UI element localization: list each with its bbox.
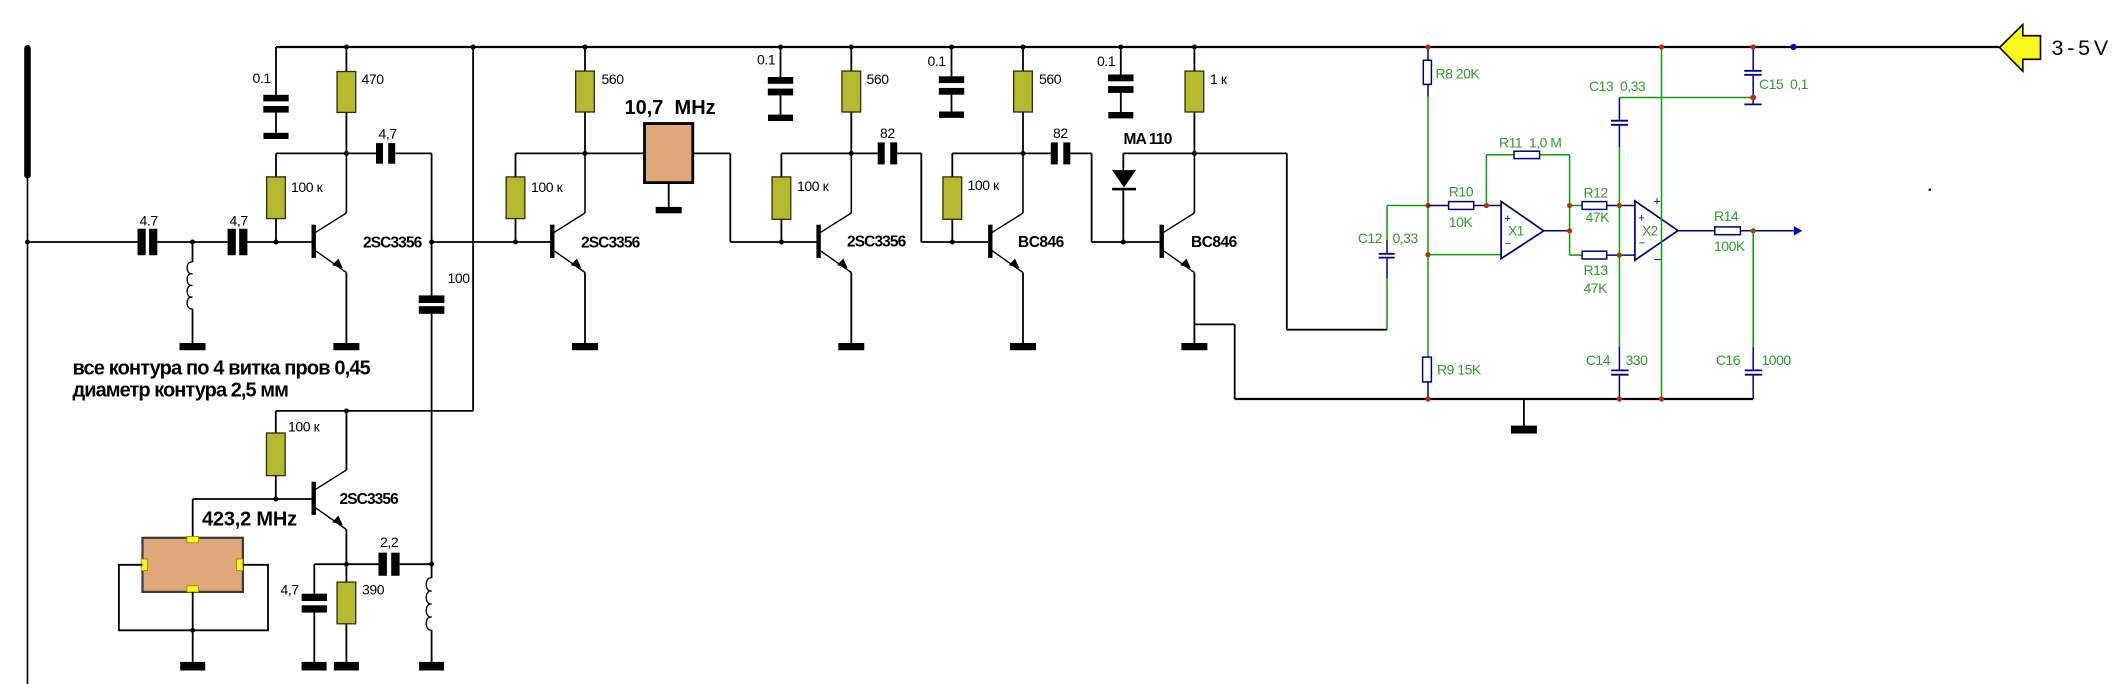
wire R12 right lead [1607,205,1635,207]
capacitor C13 0,33 [1611,120,1628,122]
ground analog [1511,426,1537,434]
wire C1 to L1 node [157,241,192,243]
svg-text:R12: R12 [1584,185,1609,201]
ground under R10b [334,662,359,671]
resistor R8b 100k [943,177,962,219]
wire Q5 collector output right [1194,152,1286,154]
wire Q5 emitter to ground [1193,273,1195,344]
svg-text:R14: R14 [1714,208,1739,224]
wire Q4 collector to C9 [1023,152,1051,154]
resistor R2 100k [267,177,286,219]
svg-text:100K: 100K [1714,238,1746,254]
diode VD1 MA 110 [1112,170,1136,187]
capacitor C3 0.1 top lead [275,47,277,95]
wire crystal left pin loop [119,565,268,631]
wire C7 output [897,152,921,154]
capacitor C6 0.1 [768,77,793,84]
wire R1k top lead [1193,47,1195,71]
wire top supply rail +V [276,46,1999,48]
node X2 supply rail bottom [1659,396,1664,401]
node X2 minus input [1617,253,1622,258]
svg-text:4.7: 4.7 [140,212,159,228]
node mixer base junction [429,240,434,245]
svg-text:0.1: 0.1 [928,53,947,69]
resistor R10 10K left lead [1428,205,1449,207]
wire C13 top horizontal [1619,97,1753,99]
svg-text:R13: R13 [1584,262,1609,278]
wire C11 bottom lead [313,613,315,662]
ground under Q5 [1181,343,1207,350]
wire mixer column down [431,153,433,242]
svg-text:0,33: 0,33 [1393,230,1419,246]
wire emitter to C13b [346,563,378,565]
wire C13 column [1618,147,1620,206]
capacitor C10 0.1 [1108,75,1133,82]
svg-text:330: 330 [1626,352,1649,368]
wire R10b bottom lead [345,624,347,662]
svg-text:R8 20K: R8 20K [1436,66,1481,82]
wire Q6 collector vertical [345,411,347,470]
node rail junction R1k [1192,45,1197,50]
svg-text:C15 0,1: C15 0,1 [1759,76,1809,92]
capacitor C12 0,33 green top [1386,206,1388,241]
wire R6 bottom lead [780,219,782,242]
node Q1 collector [344,151,349,156]
svg-text:−: − [1639,238,1645,250]
antenna W1 [24,45,31,179]
wire X1 minus input [1428,254,1501,256]
node Q1 base bias [274,240,279,245]
wire R11 feedback top right [1540,154,1570,156]
ground under C6 [768,115,793,121]
capacitor C3 0.1 [263,95,288,102]
capacitor C11 4,7 top lead [313,564,315,594]
capacitor C4 4,7 coupling [346,152,376,154]
wire C12 bottom green [1386,279,1388,330]
ground under Q2 [572,343,598,350]
wire R6 top lead [780,153,782,177]
capacitor C7 82 [878,142,885,164]
resistor R9b 100k [266,433,285,476]
wire C3 to ground bar [275,112,277,133]
node X2 supply rail top [1659,44,1664,49]
wire R8 to input node green [1427,97,1429,206]
node Q5 collector [1192,151,1197,156]
wire C10 to ground bar [1120,93,1122,112]
wire R2 top lead [275,153,277,177]
svg-text:560: 560 [1039,71,1062,87]
wire C2 to Q1 base [247,241,311,243]
svg-text:0.1: 0.1 [757,52,776,68]
transistor Q1 2SC3356 [312,225,316,258]
node rail junction C6 [778,45,783,50]
wire to R13 [1570,254,1583,256]
ground under L1 [180,343,206,350]
transistor Q3 2SC3356 [816,225,820,258]
node R14 output [1751,228,1756,233]
crystal pin bottom [187,586,199,592]
wire inverting node to R9 [1427,255,1429,358]
wire oscillator supply drop [472,47,474,411]
wire R1 bottom to collector node [345,112,347,153]
capacitor C8 0.1 top lead [951,47,953,76]
output arrow [1794,226,1803,236]
svg-text:+: + [1653,193,1661,208]
resistor R12 47K left lead [1570,205,1583,207]
svg-text:−: − [1505,238,1511,250]
node Q2 collector [583,151,588,156]
wire output drop [1286,153,1288,329]
node rail junction R7 [1021,45,1026,50]
stray dot [1929,189,1931,191]
capacitor C12 0,33 [1386,240,1388,253]
crystal pin right [237,559,243,571]
power arrow 3-5V [2000,25,2041,72]
svg-text:все контура по 4 витка пров 0,: все контура по 4 витка пров 0,45 [73,358,371,380]
ground under crystal [180,662,205,671]
node Q4 collector [1021,151,1026,156]
resistor R1k 1k [1185,71,1204,112]
wire R8b bottom lead [951,219,953,242]
wire C13b to L2 node [400,563,432,565]
svg-text:100 к: 100 к [968,177,1001,193]
wire collector node left to diode [1123,152,1194,154]
node R9 bottom [1425,396,1430,401]
wire Q3 emitter to ground [850,273,852,344]
svg-text:10,7 MHz: 10,7 MHz [625,97,716,119]
svg-text:47K: 47K [1584,280,1609,296]
filter Z1 10,7 MHz [645,124,693,183]
resistor R8 20K top lead [1427,47,1429,60]
svg-text:470: 470 [362,71,385,87]
ground under C10 [1108,112,1133,118]
svg-text:C12: C12 [1358,230,1383,246]
resistor R6 100k [772,177,791,219]
node X2 plus input [1617,203,1622,208]
wire C6 to ground bar [780,95,782,114]
svg-text:2SC3356: 2SC3356 [847,233,907,250]
node rail junction R1 [344,45,349,50]
svg-text:X2: X2 [1642,223,1658,238]
wire crystal bottom pin [192,592,194,662]
svg-text:100 к: 100 к [531,179,564,195]
wire C9 output [1070,152,1091,154]
capacitor C5 100 injection top lead [431,242,433,295]
capacitor C8 0.1 [939,76,964,83]
capacitor C16 1000 [1752,347,1754,370]
resistor R11 1,0 M [1514,151,1540,158]
resistor R8 20K [1423,60,1431,84]
capacitor C5 100 [419,295,445,303]
ground under L2 [419,662,444,671]
wire R13 right lead [1607,254,1635,256]
ground under Q1 [333,343,359,350]
wire ground stub [1523,399,1525,426]
wire L1 node to C2 [193,241,228,243]
node rail junction C8 [949,45,954,50]
node rail junction R3 [583,45,588,50]
wire X1 output node vertical [1569,206,1571,256]
resistor R9 15K [1423,357,1432,382]
ground under C3 [264,133,289,139]
crystal pin left [141,559,147,571]
node rail junction C10 [1118,45,1123,50]
node Q3 base bias [779,240,784,245]
wire collector node left to R4 [516,152,586,154]
wire R11 feedback top left [1486,154,1514,156]
node rail junction R5 [849,45,854,50]
transistor Q6 2SC3356 [312,482,316,515]
svg-text:2,2: 2,2 [380,534,399,550]
wire R8 bottom lead [1427,84,1429,96]
resistor R3 560 [576,71,595,112]
node antenna junction [25,240,30,245]
capacitor C9 82 [1051,142,1058,164]
wire emitter tap [1194,323,1234,325]
svg-text:82: 82 [1053,125,1068,141]
svg-text:423,2 MHz: 423,2 MHz [202,509,297,531]
op-amp X2 [1635,201,1678,260]
wire R7 bottom to collector node [1022,112,1024,153]
svg-text:2SC3356: 2SC3356 [363,234,423,251]
transistor Q4 BC846 [988,225,992,258]
wire Q2 collector to filter [585,152,645,154]
wire input node to inverting node [1427,206,1429,255]
capacitor C10 0.1 top lead [1120,47,1122,75]
resistor R10 10K [1449,202,1474,210]
wire oscillator supply horizontal [276,410,473,412]
svg-text:3 - 5 V: 3 - 5 V [2052,36,2109,60]
wire R9b top lead [275,411,277,433]
svg-text:4,7: 4,7 [230,212,249,228]
svg-text:BC846: BC846 [1018,234,1065,251]
ground under Q4 [1010,343,1036,350]
wire L1 bottom lead [192,309,194,343]
wire emitter node line [314,563,346,565]
node L2 junction [429,562,434,567]
crystal ZQ1 423.2 MHz [143,538,243,592]
crystal pin top [187,537,199,543]
node Q2 base bias [513,240,518,245]
wire Q2 emitter to ground [584,273,586,344]
node inverting input [1425,252,1430,257]
svg-text:1 к: 1 к [1210,71,1228,87]
ground under Q3 [838,343,864,350]
wire base line stage3 [730,241,816,243]
wire R2 bottom lead [275,219,277,242]
node Q6 emitter junction [344,562,349,567]
svg-text:диаметр контура 2,5 мм: диаметр контура 2,5 мм [73,380,289,402]
node Q5 base bias [1121,240,1126,245]
node R10 left [1425,203,1430,208]
op-amp X1 [1501,201,1544,258]
wire base line stage2 [432,241,552,243]
svg-text:2SC3356: 2SC3356 [581,234,641,251]
wire R1k bottom to collector node [1193,112,1195,153]
wire output to C12 [1287,329,1387,331]
node X1 plus input [1484,203,1489,208]
wire R1 top lead [345,47,347,72]
ground under C11 [302,662,327,671]
node X1 out top [1567,203,1572,208]
svg-text:R10: R10 [1449,184,1474,200]
wire filter output [693,152,731,154]
wire R11 feedback left vertical [1485,155,1487,206]
capacitor C14 330 [1618,347,1620,370]
inductor L1 [187,262,192,309]
node X1 out [1567,228,1572,233]
wire R5 bottom to collector node [850,112,852,153]
svg-text:R11 1,0 M: R11 1,0 M [1499,135,1561,151]
svg-text:390: 390 [362,582,385,598]
wire R8b top lead [951,153,953,177]
svg-text:BC846: BC846 [1191,234,1238,251]
svg-text:47K: 47K [1586,209,1611,225]
svg-text:0.1: 0.1 [253,70,272,86]
wire antenna lead down [27,178,29,684]
svg-text:0.1: 0.1 [1097,53,1116,69]
node C15 rail [1751,44,1756,49]
svg-text:MA 110: MA 110 [1124,131,1172,148]
wire C12 node link [1387,205,1428,207]
wire Q6 base line [193,498,312,500]
capacitor C6 0.1 top lead [780,47,782,77]
capacitor C11 4,7 [302,594,327,601]
resistor R4 100k [506,177,525,219]
node C15 junction [1750,95,1756,101]
node L1 tap [190,240,195,245]
svg-text:1000: 1000 [1762,352,1792,368]
wire R10 right lead [1474,205,1501,207]
wire C8 to ground bar [951,95,953,112]
node R8 rail [1425,44,1430,49]
resistor R10b 390 [337,582,356,624]
wire base line stage4 [921,241,988,243]
svg-text:560: 560 [602,71,625,87]
capacitor C2 4,7 [228,229,236,256]
svg-text:R9 15K: R9 15K [1437,362,1482,378]
svg-text:X1: X1 [1508,224,1524,239]
wire R3 bottom to collector node [584,112,586,153]
wire L2 top lead [431,564,433,578]
wire collector node left to R8b [952,152,1023,154]
node blue rail marker [1790,44,1796,50]
node Q4 base bias [950,240,955,245]
wire base line stage5 [1092,241,1160,243]
svg-text:10K: 10K [1449,214,1474,230]
wire filter ground stub [668,183,670,207]
wire R9b bottom lead [275,476,277,499]
resistor R1 470 [337,72,356,113]
svg-text:C13 0,33: C13 0,33 [1589,78,1646,94]
svg-text:2SC3356: 2SC3356 [340,491,400,508]
resistor R13 47K [1582,251,1607,259]
svg-text:560: 560 [867,71,890,87]
wire bottom analog rail [1235,398,1754,400]
inductor L2 [426,578,431,630]
wire X2 supply green vertical [1661,47,1663,399]
wire Q4 emitter to ground [1022,273,1024,344]
wire C4 to mixer node [396,152,432,154]
ground under C8 [939,112,964,118]
wire VD1 cathode lead [1122,190,1124,242]
wire emitter tap drop [1234,324,1236,399]
node Q6 base bias [273,497,278,502]
wire R9 bottom lead [1427,382,1429,399]
node crystal loop junction [190,628,195,633]
wire L2 bottom lead [431,630,433,662]
wire Q6 emitter down [345,530,347,583]
svg-text:100: 100 [448,270,471,286]
node oscillator supply junction [344,408,349,413]
wire R4 bottom lead [515,219,517,242]
wire collector node left to R6 [781,152,851,154]
wire collector node left to R2 [276,152,346,154]
wire R5 top lead [850,47,852,71]
capacitor C15 0,1 [1752,47,1754,70]
diode VD1 MA 110 anode lead [1122,153,1124,170]
svg-text:4,7: 4,7 [281,582,300,598]
wire R14 right lead [1740,230,1793,232]
svg-text:4,7: 4,7 [379,126,398,142]
svg-text:C16: C16 [1716,352,1741,368]
wire C5 bottom to oscillator [431,314,433,565]
wire crystal top lead [192,499,194,538]
C15 open end stub [1752,98,1754,104]
wire Q3 collector to C7 [851,152,877,154]
svg-text:−: − [1654,252,1662,267]
transistor Q5 BC846 [1160,225,1164,258]
wire Q1 emitter to ground [345,273,347,344]
resistor R7 560 [1014,71,1033,112]
resistor R14 100K [1715,227,1741,235]
node C14 rail [1617,396,1622,401]
svg-text:C14: C14 [1586,352,1611,368]
wire R4 top lead [515,153,517,177]
wire C16 column green [1752,231,1754,347]
wire R7 top lead [1022,47,1024,71]
wire input line to C1 [28,241,138,243]
wire X2 output [1678,230,1715,232]
svg-text:82: 82 [880,125,895,141]
capacitor C13b 2,2 [379,553,387,576]
svg-text:100 к: 100 к [291,179,324,195]
wire X1 output [1544,230,1570,232]
capacitor C1 4.7 [138,229,146,256]
node Q3 collector [849,151,854,156]
wire R11 feedback right vertical [1569,155,1571,206]
capacitor C13 top green [1618,98,1620,120]
resistor R12 47K [1582,202,1607,210]
node rail junction oscillator supply [471,45,476,50]
svg-text:100 к: 100 к [288,419,321,435]
ground under filter [656,207,682,213]
resistor R5 560 [842,71,861,112]
wire L1 top lead [192,242,194,262]
svg-text:100 к: 100 к [797,178,830,194]
wire R3 top lead [584,47,586,71]
transistor Q2 2SC3356 [550,225,554,258]
